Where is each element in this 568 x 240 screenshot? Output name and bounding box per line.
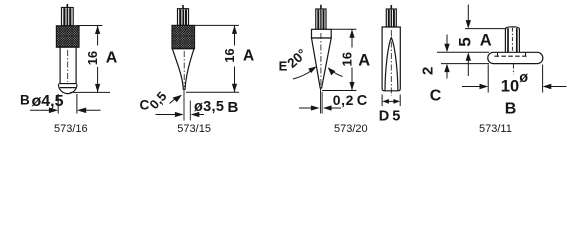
svg-text:B: B (20, 93, 30, 108)
block F3L (312, 29, 332, 38)
stem F2 (178, 9, 189, 26)
svg-text:2: 2 (419, 67, 436, 75)
disc bottom ref ext F4 (441, 63, 489, 65)
left leader arc F3 (293, 71, 312, 80)
dim 2 F4 (437, 35, 489, 79)
hidden dashes F4 (495, 55, 529, 57)
dim o3,5 F2 (156, 90, 205, 121)
svg-text:B: B (228, 99, 239, 116)
svg-text:5: 5 (392, 109, 400, 125)
dim D5 F3R (382, 95, 400, 107)
bottom ref line F3 (322, 90, 357, 92)
dim line upper F1 (97, 26, 99, 46)
dim line lower F1 (97, 67, 99, 93)
dim line lower F2 (234, 67, 236, 93)
top ref line F4 (465, 28, 507, 30)
ball F1 (58, 84, 77, 93)
lower arrow F4 (467, 61, 469, 77)
svg-text:10: 10 (501, 77, 519, 95)
svg-text:573/11: 573/11 (479, 123, 512, 135)
top ref line F3 (332, 28, 357, 30)
dim o4,5 F1 (30, 94, 101, 114)
ext line below tip F3 (320, 89, 322, 114)
leader line F2 (170, 99, 176, 104)
knurl F1 (56, 26, 79, 47)
dim 16 F2 (186, 25, 239, 92)
arrow left-pointing F3 (330, 107, 341, 109)
cone F2 (172, 49, 194, 90)
dim line upper F3 (351, 29, 353, 47)
ext left F3R (381, 95, 383, 107)
taper F3L (312, 38, 332, 88)
stem F1 (62, 8, 74, 26)
right view F3R (382, 5, 400, 96)
svg-text:5: 5 (456, 37, 475, 46)
disc top ref ext F4 (437, 51, 489, 53)
svg-text:A: A (106, 49, 118, 66)
svg-text:16: 16 (222, 48, 237, 62)
centerline F4 (512, 64, 514, 75)
svg-text:C: C (430, 87, 442, 104)
arrow up F3 (349, 29, 354, 38)
svg-text:C: C (357, 93, 368, 109)
arrow right-pointing F3 (299, 107, 312, 109)
ext left F4 (487, 65, 489, 93)
ext right F3R (399, 95, 401, 107)
dim 16 F3 (322, 29, 357, 90)
svg-text:16: 16 (85, 51, 100, 65)
stem nub F3R (390, 5, 392, 9)
svg-text:A: A (243, 47, 254, 64)
arrow down F3 (349, 82, 354, 91)
dim 5 F4 (465, 5, 507, 77)
stem F4 (505, 27, 519, 53)
dim line upper F2 (234, 25, 236, 45)
dim line lower F3 (351, 68, 353, 91)
svg-text:ø4,5: ø4,5 (32, 93, 64, 110)
stem F3R (386, 9, 396, 27)
stem nub F2 (182, 5, 184, 9)
centerline F3R (390, 30, 392, 96)
svg-text:D: D (379, 109, 389, 125)
arrow left-pointing F1 (84, 109, 101, 111)
svg-text:573/16: 573/16 (54, 123, 88, 135)
ball chord line F1 (60, 87, 76, 89)
dim o10 F4 (462, 65, 567, 93)
ext line tip F2 (183, 90, 185, 121)
svg-text:A: A (358, 51, 370, 69)
stem F3L (316, 9, 326, 29)
ball seat line F1 (59, 83, 77, 85)
body F1 (60, 47, 76, 83)
centerline F1 (67, 50, 69, 82)
ext left F1 (57, 94, 59, 114)
upper arrow F4-2 (446, 35, 448, 45)
svg-text:A: A (480, 31, 492, 49)
dim 0,2 F3 (299, 89, 341, 114)
arrow left-pointing F4 (551, 86, 567, 88)
stem nub F1 (66, 4, 68, 8)
arrow up F2 (232, 25, 237, 34)
dim 0,5 leader F2 (170, 95, 183, 104)
lower arrow F4-2 (446, 72, 448, 79)
centerline F2 (183, 51, 185, 87)
right leader arc F3 (333, 72, 343, 77)
svg-text:ø: ø (519, 70, 528, 86)
top ref line F1 (77, 25, 102, 27)
ext right F1 (76, 94, 78, 114)
bottom ref line F1 (70, 91, 110, 93)
upper arrow line F4 (467, 5, 469, 22)
arrow right-pointing F1 (30, 109, 50, 111)
arrow left-pointing F2 (197, 114, 204, 116)
arch F3R (385, 38, 398, 91)
knurl F2 (172, 25, 195, 48)
svg-text:573/15: 573/15 (177, 123, 211, 135)
angle leaders F3 (293, 66, 343, 79)
outward arrows F3R (385, 100, 397, 102)
svg-text:0,2: 0,2 (333, 92, 354, 108)
ext line right F2 (189, 101, 191, 121)
svg-text:B: B (505, 101, 517, 118)
bottom ref line F2 (186, 91, 239, 93)
arrow down F1 (95, 84, 100, 93)
centerline F3L (320, 33, 322, 86)
arrow right-pointing F2 (156, 114, 177, 116)
svg-text:ø3,5: ø3,5 (194, 99, 224, 115)
body F3R (382, 27, 400, 91)
top ref line F2 (195, 24, 239, 26)
arrow down F2 (232, 84, 237, 93)
disc F4 (488, 52, 543, 63)
arrow up F1 (95, 26, 100, 35)
svg-text:573/20: 573/20 (334, 123, 368, 135)
svg-text:C: C (140, 98, 150, 113)
svg-text:16: 16 (340, 52, 355, 66)
arrow right-pointing F4 (462, 86, 480, 88)
stem nub F3L (320, 5, 322, 9)
ext right F4 (542, 65, 544, 93)
dim 16 F1 (70, 26, 110, 94)
